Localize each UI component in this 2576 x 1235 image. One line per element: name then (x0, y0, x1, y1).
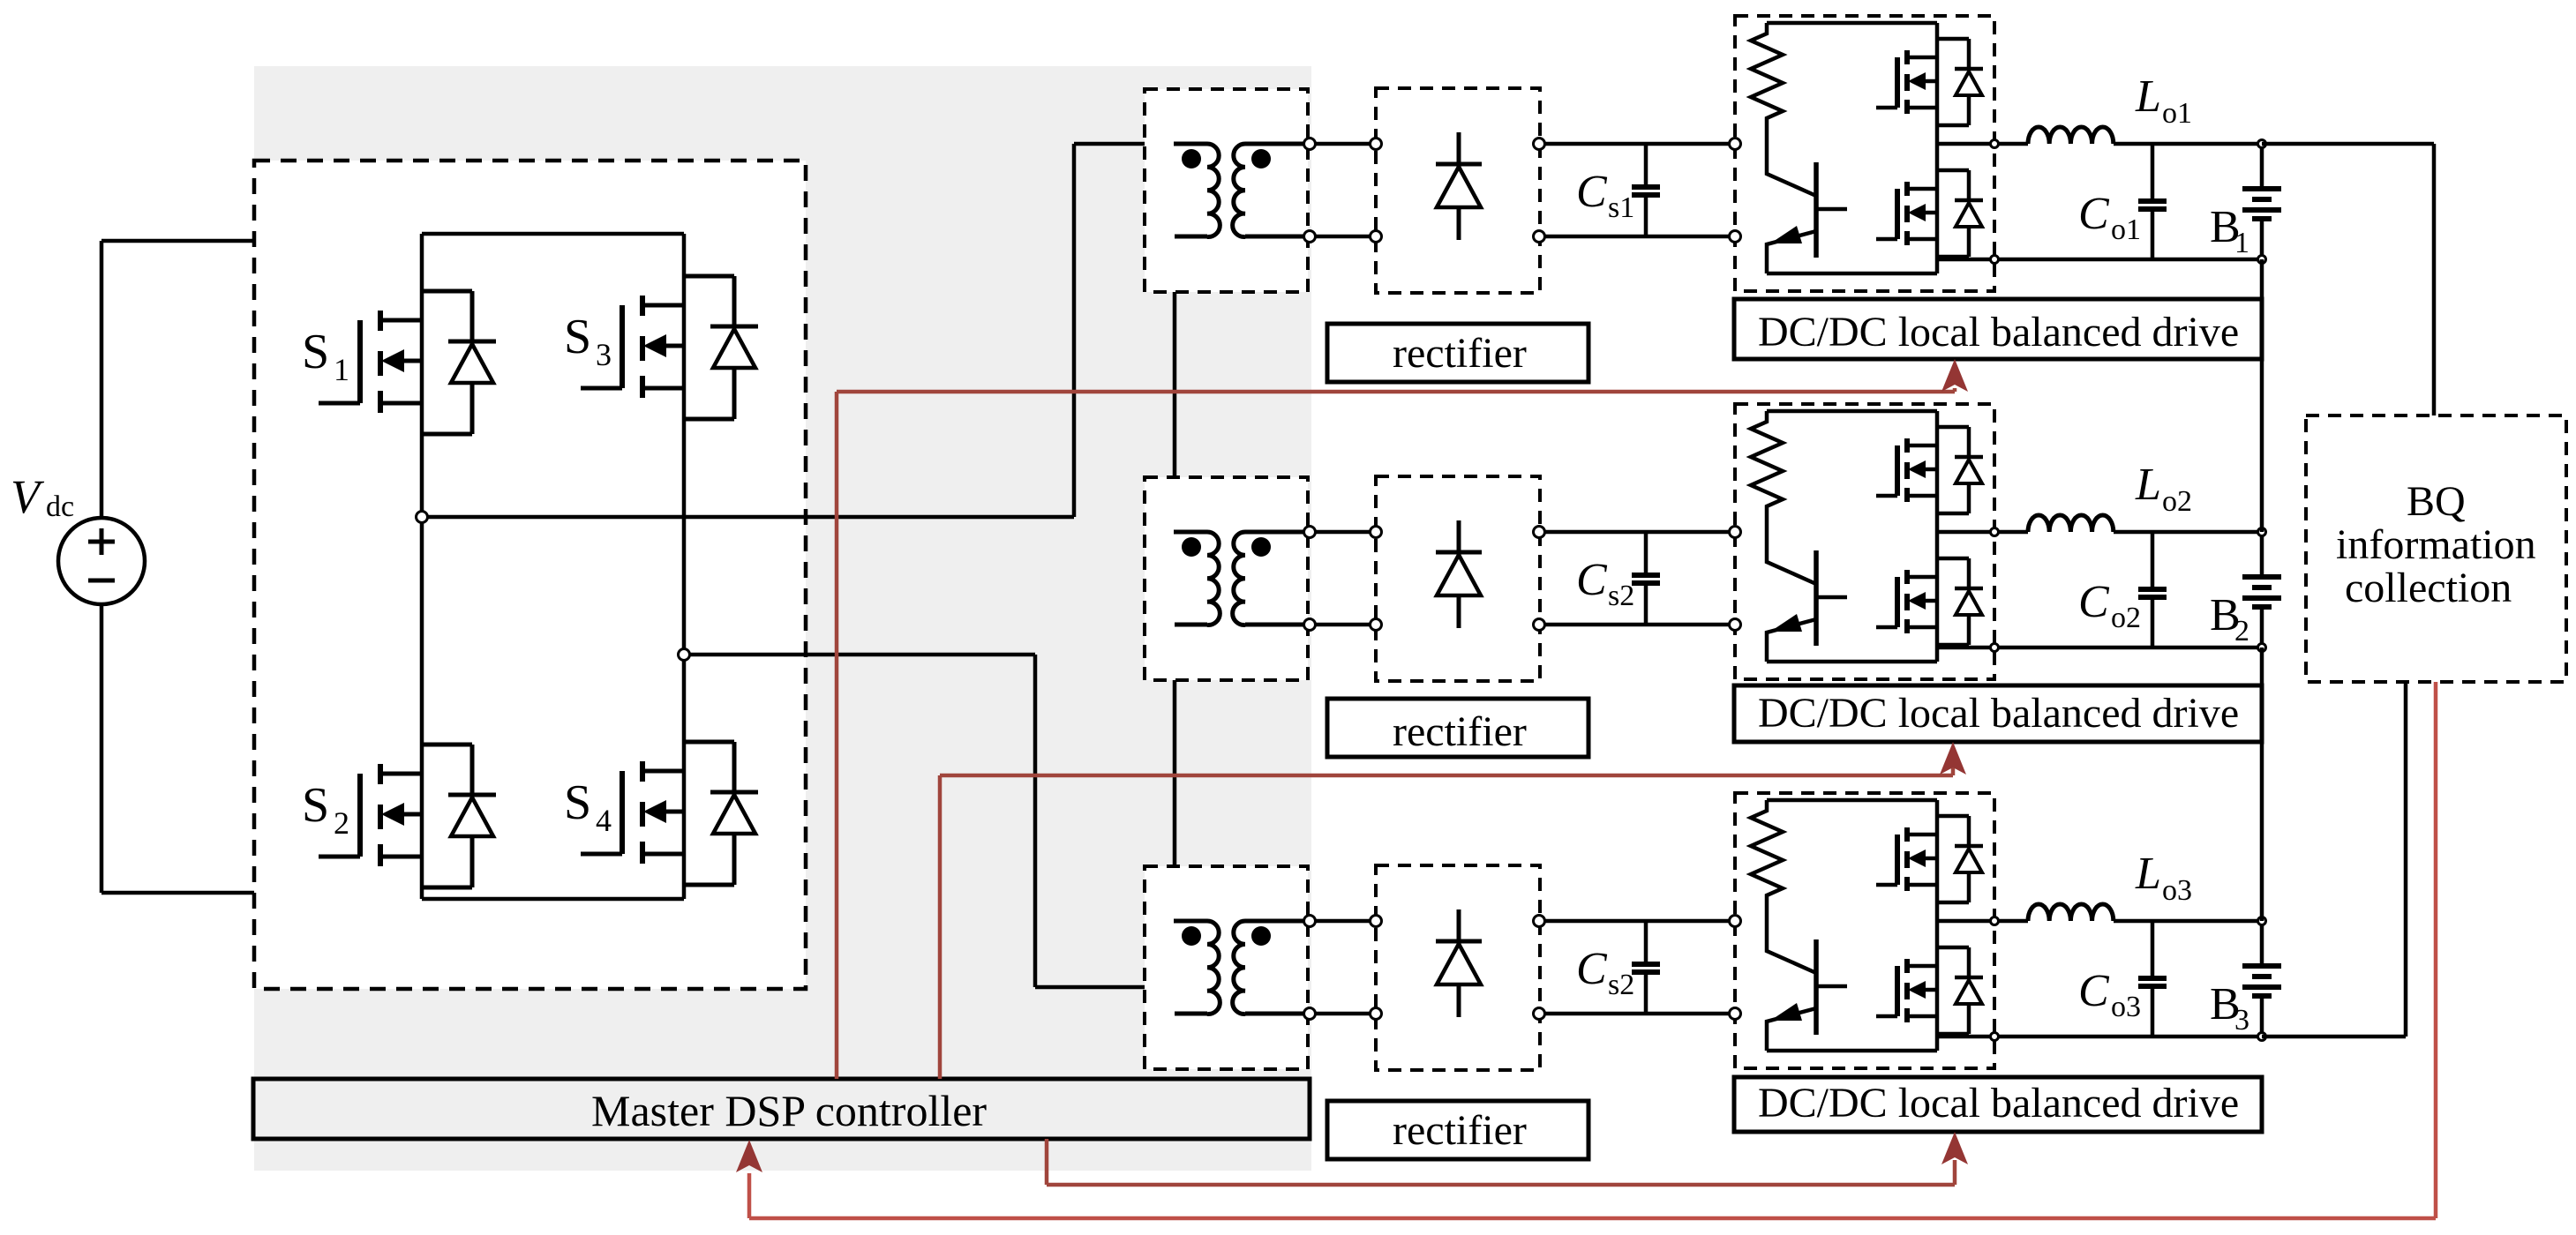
svg-text:information: information (2336, 521, 2536, 568)
svg-text:rectifier: rectifier (1393, 1107, 1527, 1154)
svg-text:3: 3 (596, 337, 612, 372)
svg-text:o3: o3 (2162, 874, 2192, 907)
svg-text:1: 1 (2234, 227, 2249, 259)
svg-text:o2: o2 (2111, 602, 2141, 634)
svg-text:L: L (2135, 460, 2161, 510)
svg-text:S: S (302, 778, 329, 833)
svg-text:1: 1 (334, 352, 349, 387)
svg-text:o1: o1 (2162, 97, 2192, 130)
svg-text:C: C (2078, 966, 2110, 1016)
svg-text:o2: o2 (2162, 485, 2192, 518)
svg-text:Master DSP controller: Master DSP controller (591, 1086, 987, 1135)
svg-text:L: L (2135, 71, 2161, 122)
svg-text:rectifier: rectifier (1393, 330, 1527, 377)
svg-text:C: C (1576, 555, 1608, 605)
svg-text:s2: s2 (1608, 580, 1634, 612)
svg-text:2: 2 (334, 805, 349, 841)
svg-text:S: S (302, 325, 329, 379)
svg-text:4: 4 (596, 803, 612, 838)
svg-text:rectifier: rectifier (1393, 708, 1527, 755)
svg-text:L: L (2135, 849, 2161, 899)
svg-text:C: C (1576, 167, 1608, 217)
svg-text:3: 3 (2234, 1004, 2249, 1037)
svg-text:dc: dc (46, 490, 74, 523)
svg-text:BQ: BQ (2407, 478, 2466, 525)
svg-text:DC/DC local balanced drive: DC/DC local balanced drive (1758, 690, 2239, 737)
svg-text:2: 2 (2234, 615, 2249, 647)
svg-text:collection: collection (2345, 565, 2512, 611)
svg-text:s2: s2 (1608, 969, 1634, 1001)
svg-text:S: S (564, 310, 591, 364)
svg-text:o3: o3 (2111, 991, 2141, 1023)
svg-text:DC/DC local balanced drive: DC/DC local balanced drive (1758, 1080, 2239, 1126)
svg-text:o1: o1 (2111, 213, 2141, 246)
svg-text:C: C (2078, 189, 2110, 239)
svg-text:C: C (1576, 944, 1608, 994)
svg-text:S: S (564, 775, 591, 830)
svg-text:s1: s1 (1608, 191, 1634, 224)
svg-text:C: C (2078, 577, 2110, 627)
svg-text:DC/DC local balanced drive: DC/DC local balanced drive (1758, 309, 2239, 356)
